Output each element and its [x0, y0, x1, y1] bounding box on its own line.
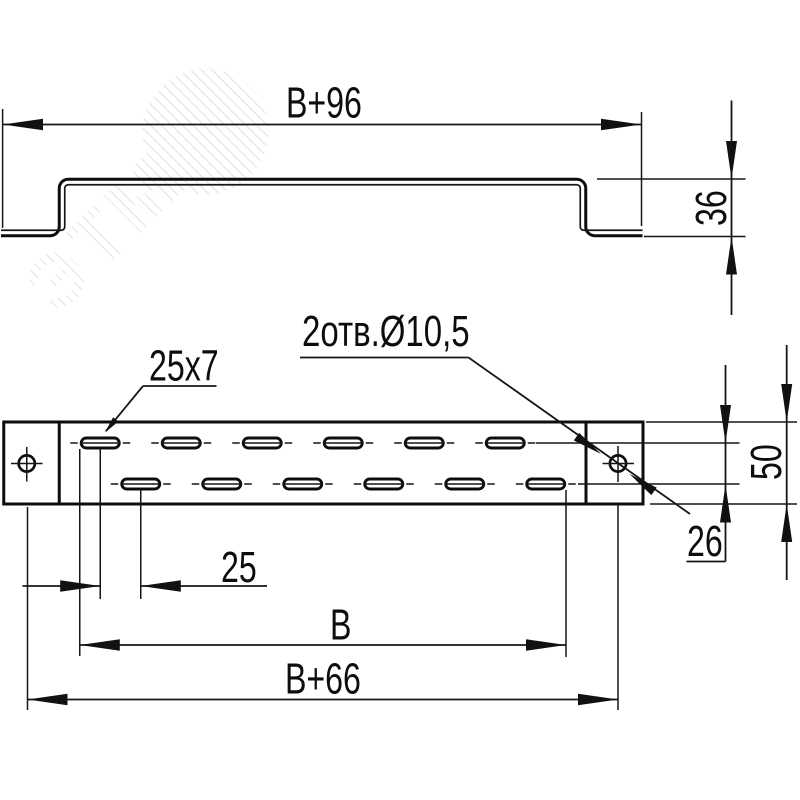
svg-text:B: B — [330, 601, 351, 650]
dimension B+96 — [3, 79, 642, 228]
svg-text:50: 50 — [742, 444, 791, 480]
svg-text:25x7: 25x7 — [149, 342, 219, 391]
top view: hat profile outer surface — [1, 179, 643, 236]
top view: hat profile inner surface — [1, 185, 643, 231]
dimension 26 — [687, 365, 732, 566]
dimension 50 — [646, 345, 797, 580]
svg-text:26: 26 — [687, 517, 723, 566]
dimension 25 — [23, 449, 268, 656]
svg-text:B+66: B+66 — [285, 655, 361, 704]
dimension 36 — [597, 101, 746, 316]
plan view outline — [4, 422, 643, 504]
right end cap line — [585, 422, 588, 504]
dimension B+66 — [28, 503, 619, 710]
svg-text:B+96: B+96 — [286, 79, 362, 128]
leader 25x7 slot size — [105, 342, 219, 433]
slot row bottom (25x7 perforations) — [111, 479, 740, 489]
watermark ETM logo — [0, 43, 295, 344]
mounting hole right — [603, 446, 635, 482]
leader 2отв. diameter 10,5 — [300, 308, 690, 514]
svg-text:2отв.Ø10,5: 2отв.Ø10,5 — [302, 308, 470, 357]
svg-text:36: 36 — [687, 190, 736, 226]
mounting hole left — [11, 447, 43, 482]
slot row top (25x7 perforations) — [70, 438, 739, 448]
svg-text:25: 25 — [221, 543, 257, 592]
dimension B — [80, 490, 566, 657]
left end cap line — [58, 422, 61, 504]
